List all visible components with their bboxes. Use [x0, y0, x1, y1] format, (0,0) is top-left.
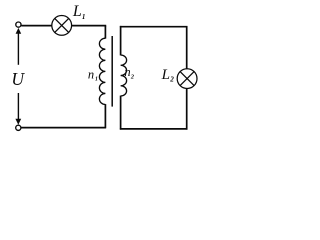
svg-text:L: L	[161, 67, 170, 83]
svg-text:2: 2	[169, 76, 174, 84]
svg-text:L: L	[72, 3, 82, 20]
svg-text:U: U	[11, 69, 25, 89]
svg-text:1: 1	[82, 13, 86, 21]
svg-text:n: n	[124, 65, 130, 79]
svg-text:1: 1	[95, 76, 98, 82]
svg-text:2: 2	[130, 74, 134, 81]
svg-text:n: n	[88, 68, 94, 82]
